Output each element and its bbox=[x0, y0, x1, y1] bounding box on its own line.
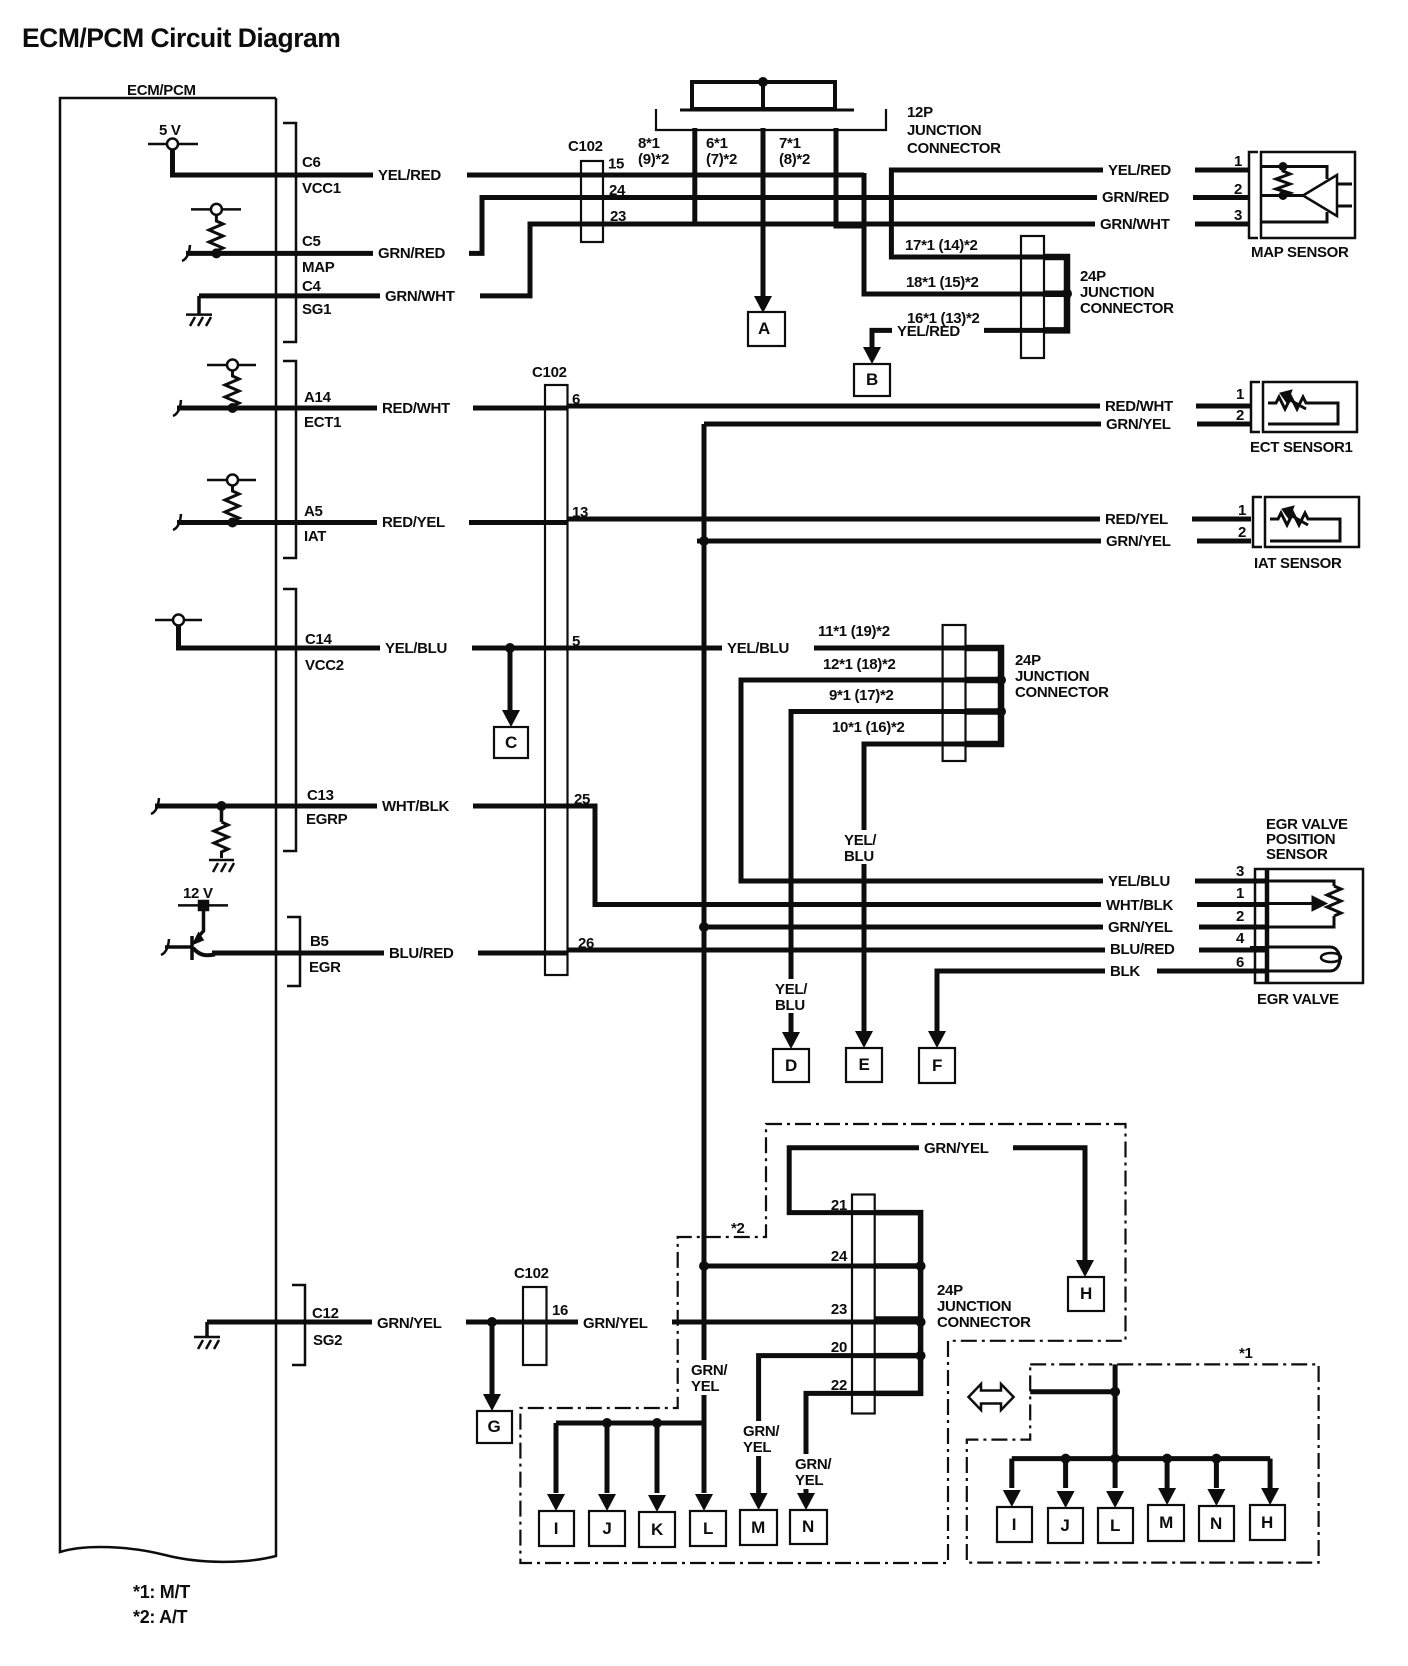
wire drop J row1 bbox=[605, 1423, 610, 1493]
svg-text:23: 23 bbox=[831, 1301, 847, 1318]
arrowhead M row2 bbox=[1158, 1488, 1176, 1505]
svg-text:G: G bbox=[488, 1417, 501, 1436]
wire label GRN/YEL C102-16 bbox=[578, 1313, 672, 1332]
arrowhead N row1 bbox=[797, 1493, 815, 1510]
svg-text:CONNECTOR: CONNECTOR bbox=[1015, 684, 1109, 701]
svg-text:11*1 (19)*2: 11*1 (19)*2 bbox=[818, 623, 890, 640]
wire EGR GRN/YEL pin2 bbox=[704, 925, 1268, 930]
svg-text:ECT SENSOR1: ECT SENSOR1 bbox=[1250, 439, 1353, 456]
wire 12P busbar flange bbox=[680, 109, 854, 112]
svg-text:C102: C102 bbox=[568, 138, 603, 155]
svg-text:MAP: MAP bbox=[302, 259, 335, 276]
svg-text:(7)*2: (7)*2 bbox=[706, 151, 737, 168]
junction bus1 K bbox=[652, 1418, 662, 1428]
arrowhead J row1 bbox=[598, 1494, 616, 1511]
ECT sensor connector bracket bbox=[1251, 382, 1260, 432]
box N row2 bbox=[1199, 1506, 1234, 1541]
wire drop H row2 bbox=[1268, 1459, 1273, 1488]
box L row2 bbox=[1098, 1508, 1133, 1543]
box M row1 bbox=[740, 1510, 777, 1545]
svg-text:*2: A/T: *2: A/T bbox=[133, 1607, 188, 1627]
svg-text:2: 2 bbox=[1238, 524, 1246, 541]
svg-text:25: 25 bbox=[574, 791, 590, 808]
box D bbox=[773, 1049, 809, 1082]
arrowhead J row2 bbox=[1057, 1491, 1075, 1508]
svg-text:(8)*2: (8)*2 bbox=[779, 151, 810, 168]
arrowhead A bbox=[754, 296, 772, 313]
12P junction connector busbar bbox=[692, 82, 835, 109]
svg-text:IAT SENSOR: IAT SENSOR bbox=[1254, 555, 1342, 572]
svg-text:23: 23 bbox=[610, 208, 626, 225]
svg-text:YEL: YEL bbox=[743, 1439, 771, 1456]
EGR position sensor pot bbox=[1268, 881, 1341, 927]
box J row1 bbox=[589, 1511, 625, 1546]
wire GRN/YEL long vertical bbox=[702, 424, 707, 1423]
bracket group5 C12 bbox=[292, 1285, 305, 1365]
wire 24P-22 to N bbox=[806, 1393, 921, 1493]
svg-text:RED/WHT: RED/WHT bbox=[1105, 398, 1173, 415]
wire label GRN/YEL ECT2 bbox=[1101, 414, 1197, 433]
svg-text:YEL/BLU: YEL/BLU bbox=[385, 640, 447, 657]
arrowhead L row1 bbox=[695, 1494, 713, 1511]
svg-text:ECT1: ECT1 bbox=[304, 414, 341, 431]
junction 24P top bus bbox=[1062, 289, 1072, 299]
junction MAP resistor top bbox=[1279, 162, 1288, 171]
wire label RED/YEL IAT1 bbox=[1100, 509, 1192, 528]
box I row1 bbox=[539, 1511, 574, 1546]
arrowhead F bbox=[928, 1031, 946, 1048]
wire 12P pin 8*1 to C102-23 bbox=[692, 128, 697, 224]
svg-text:16*1 (13)*2: 16*1 (13)*2 bbox=[907, 310, 980, 327]
wire 24P top bus bbox=[1044, 257, 1067, 330]
wire ground drop C4 bbox=[197, 296, 201, 314]
svg-text:VCC1: VCC1 bbox=[302, 180, 341, 197]
svg-text:12*1 (18)*2: 12*1 (18)*2 bbox=[823, 656, 896, 673]
wire YEL/RED MAP pin1 to 24P-17 bbox=[891, 170, 1249, 257]
wire 24P mid bus bbox=[966, 648, 1002, 744]
wire drop J row2 bbox=[1063, 1459, 1068, 1488]
svg-text:JUNCTION: JUNCTION bbox=[1080, 284, 1154, 301]
svg-text:SENSOR: SENSOR bbox=[1266, 846, 1328, 863]
MAP sensor box bbox=[1261, 152, 1355, 238]
24P junction connector mid housing bbox=[943, 625, 966, 761]
slash continuation C5 bbox=[182, 245, 190, 261]
box I row2 bbox=[997, 1507, 1032, 1542]
5V supply symbol VCC2 bbox=[155, 615, 202, 626]
EGR valve solenoid bbox=[1268, 947, 1341, 971]
svg-text:21: 21 bbox=[831, 1197, 847, 1214]
svg-text:8*1: 8*1 bbox=[638, 135, 660, 152]
junction IAT GRN/YEL bbox=[699, 536, 709, 546]
wire label GRN/RED MAP2 bbox=[1097, 188, 1193, 207]
junction bus2 L bbox=[1110, 1454, 1120, 1464]
wire 12P pin 7*1 jog bbox=[836, 128, 864, 226]
junction G drop bbox=[487, 1317, 497, 1327]
box M row2 bbox=[1148, 1505, 1184, 1541]
resistor pullup A14 bbox=[207, 360, 256, 409]
svg-text:I: I bbox=[1012, 1515, 1016, 1534]
wire label BLU/RED EGR4 bbox=[1105, 939, 1199, 958]
svg-text:CONNECTOR: CONNECTOR bbox=[907, 140, 1001, 157]
dashed box *1 bbox=[967, 1364, 1319, 1562]
EGR position sensor wiper arrow bbox=[1268, 896, 1327, 911]
svg-text:MAP SENSOR: MAP SENSOR bbox=[1251, 244, 1349, 261]
slash continuation A14 bbox=[173, 400, 181, 416]
svg-text:JUNCTION: JUNCTION bbox=[907, 122, 981, 139]
wire B5 EGR BLU/RED bbox=[212, 949, 1268, 954]
MAP sensor amplifier triangle bbox=[1303, 175, 1337, 216]
svg-text:1: 1 bbox=[1236, 885, 1244, 902]
ground C13 bbox=[209, 860, 234, 872]
svg-text:GRN/YEL: GRN/YEL bbox=[377, 1315, 442, 1332]
svg-text:24P: 24P bbox=[1080, 268, 1106, 285]
wire row2 top vertical bbox=[1113, 1364, 1118, 1458]
svg-text:BLU: BLU bbox=[844, 848, 874, 865]
slash continuation C13 bbox=[151, 798, 159, 814]
svg-text:13: 13 bbox=[572, 504, 588, 521]
junction 24P mid bus b bbox=[996, 707, 1006, 717]
svg-text:BLU/RED: BLU/RED bbox=[1110, 941, 1175, 958]
junction 24P mid bus a bbox=[996, 675, 1006, 685]
svg-text:YEL/BLU: YEL/BLU bbox=[1108, 873, 1170, 890]
svg-text:GRN/RED: GRN/RED bbox=[1102, 189, 1170, 206]
svg-text:20: 20 bbox=[831, 1339, 847, 1356]
svg-text:VCC2: VCC2 bbox=[305, 657, 344, 674]
wire 24P-20 to M bbox=[759, 1356, 921, 1493]
svg-text:BLU: BLU bbox=[775, 997, 805, 1014]
24P junction connector bottom housing bbox=[852, 1195, 875, 1414]
svg-text:J: J bbox=[1060, 1516, 1069, 1535]
svg-text:D: D bbox=[785, 1056, 797, 1075]
wire GRN/YEL to 24P-21 bbox=[789, 1148, 1008, 1213]
wire bottom bus row1 bbox=[556, 1421, 704, 1426]
wire label GRN/WHT MAP3 bbox=[1095, 214, 1195, 233]
svg-text:15: 15 bbox=[608, 156, 624, 173]
junction YEL/BLU C drop bbox=[505, 643, 515, 653]
wire drop N row2 bbox=[1214, 1459, 1219, 1488]
IAT sensor connector bracket bbox=[1253, 497, 1262, 547]
wire ground drop C12 bbox=[205, 1322, 209, 1337]
wire G drop bbox=[490, 1322, 495, 1403]
ECT sensor box bbox=[1263, 382, 1357, 432]
svg-text:YEL/RED: YEL/RED bbox=[378, 167, 441, 184]
label GRN/YEL stacked N bbox=[792, 1454, 835, 1489]
svg-text:GRN/YEL: GRN/YEL bbox=[924, 1140, 989, 1157]
ECM/PCM box bbox=[60, 98, 276, 1562]
svg-text:JUNCTION: JUNCTION bbox=[1015, 668, 1089, 685]
bracket group4 B5 bbox=[287, 917, 300, 986]
wire label YEL/RED MAP1 bbox=[1103, 160, 1195, 179]
svg-text:SG1: SG1 bbox=[302, 301, 331, 318]
svg-text:2: 2 bbox=[1234, 181, 1242, 198]
svg-text:B: B bbox=[866, 370, 878, 389]
wire C12 SG2 GRN/YEL bbox=[207, 1320, 921, 1325]
box J row2 bbox=[1048, 1508, 1083, 1543]
svg-text:EGRP: EGRP bbox=[306, 811, 348, 828]
svg-text:3: 3 bbox=[1236, 863, 1244, 880]
box H row2 bbox=[1250, 1505, 1285, 1540]
junction 24P bottom bus a bbox=[916, 1261, 926, 1271]
wire drop L row2 bbox=[1113, 1459, 1118, 1488]
svg-text:C102: C102 bbox=[532, 364, 567, 381]
svg-text:BLU/RED: BLU/RED bbox=[389, 945, 454, 962]
junction bus1 J bbox=[602, 1418, 612, 1428]
svg-text:L: L bbox=[703, 1519, 713, 1538]
wire A14 ECT1 RED/WHT bbox=[177, 406, 1251, 408]
label YEL/BLU stacked E bbox=[845, 830, 881, 864]
svg-text:22: 22 bbox=[831, 1377, 847, 1394]
svg-text:CONNECTOR: CONNECTOR bbox=[937, 1314, 1031, 1331]
svg-text:WHT/BLK: WHT/BLK bbox=[1106, 897, 1174, 914]
wire label GRN/YEL EGR2 bbox=[1103, 917, 1199, 936]
svg-text:IAT: IAT bbox=[304, 528, 326, 545]
box C bbox=[494, 727, 528, 758]
arrowhead L row2 bbox=[1106, 1491, 1124, 1508]
svg-text:ECM/PCM Circuit Diagram: ECM/PCM Circuit Diagram bbox=[22, 23, 340, 53]
wire label WHT/BLK EGR1 bbox=[1101, 895, 1197, 914]
arrowhead D bbox=[782, 1032, 800, 1049]
box B bbox=[854, 364, 890, 396]
wire C13 EGRP WHT/BLK bbox=[155, 806, 1268, 905]
box F bbox=[919, 1048, 955, 1083]
junction A5 resistor bbox=[228, 518, 238, 528]
12V supply symbol bbox=[178, 901, 228, 910]
svg-text:10*1 (16)*2: 10*1 (16)*2 bbox=[832, 719, 905, 736]
svg-text:12 V: 12 V bbox=[183, 885, 213, 902]
wire 12P pin 6*1 down to A bbox=[761, 128, 766, 301]
5V supply symbol bbox=[148, 139, 198, 150]
svg-text:RED/YEL: RED/YEL bbox=[1105, 511, 1168, 528]
svg-text:24: 24 bbox=[831, 1248, 848, 1265]
junction A14 resistor bbox=[228, 403, 238, 413]
svg-text:J: J bbox=[602, 1519, 611, 1538]
svg-text:ECM/PCM: ECM/PCM bbox=[127, 82, 196, 99]
junction EGR GRN/YEL bbox=[699, 922, 709, 932]
wire A5 IAT RED/YEL bbox=[177, 519, 1251, 523]
arrowhead I row1 bbox=[547, 1494, 565, 1511]
svg-text:SG2: SG2 bbox=[313, 1332, 342, 1349]
wire 24P-16 YEL/RED to B bbox=[872, 330, 1067, 358]
svg-text:M: M bbox=[1159, 1513, 1173, 1532]
junction C13 resistor bbox=[217, 801, 227, 811]
svg-text:JUNCTION: JUNCTION bbox=[937, 1298, 1011, 1315]
box N row1 bbox=[790, 1510, 827, 1544]
svg-text:*2: *2 bbox=[731, 1220, 745, 1237]
junction bus2 M bbox=[1162, 1454, 1172, 1464]
svg-text:C6: C6 bbox=[302, 154, 321, 171]
junction row2 stub bbox=[1110, 1387, 1120, 1397]
slash continuation A5 bbox=[173, 514, 181, 530]
wire label YEL/BLU 24P-11 bbox=[722, 638, 814, 657]
wire IAT GRN/YEL bbox=[697, 539, 1251, 544]
svg-text:A5: A5 bbox=[304, 503, 323, 520]
double arrow symbol bbox=[969, 1384, 1014, 1410]
dashed box *2 bbox=[520, 1124, 1125, 1563]
wire label RED/WHT A14 bbox=[377, 398, 473, 417]
24P junction connector top housing bbox=[1021, 236, 1044, 358]
MAP sensor internal wiring bbox=[1261, 167, 1352, 223]
arrowhead B bbox=[863, 347, 881, 364]
wire EGR BLK to F bbox=[937, 971, 1268, 1038]
svg-text:GRN/YEL: GRN/YEL bbox=[1106, 533, 1171, 550]
svg-text:GRN/: GRN/ bbox=[691, 1362, 728, 1379]
svg-text:GRN/YEL: GRN/YEL bbox=[1108, 919, 1173, 936]
resistor pullup A5 bbox=[207, 475, 256, 524]
wire 24P-9 to D bbox=[791, 712, 1001, 1039]
svg-text:YEL/: YEL/ bbox=[844, 832, 877, 849]
junction 24P bottom bus b bbox=[916, 1317, 926, 1327]
svg-text:9*1 (17)*2: 9*1 (17)*2 bbox=[829, 687, 894, 704]
junction 24-line bbox=[699, 1261, 709, 1271]
svg-text:GRN/: GRN/ bbox=[795, 1456, 832, 1473]
wire C4 SG1 GRN/WHT bbox=[199, 224, 1249, 296]
wire label GRN/RED C5 bbox=[373, 244, 469, 263]
wire 24P bottom bus bbox=[875, 1213, 921, 1394]
svg-text:H: H bbox=[1080, 1284, 1092, 1303]
ground SG1 bbox=[186, 315, 212, 326]
svg-text:2: 2 bbox=[1236, 908, 1244, 925]
wire label RED/WHT ECT1 bbox=[1100, 396, 1196, 415]
box E bbox=[846, 1048, 882, 1082]
svg-text:C12: C12 bbox=[312, 1305, 339, 1322]
junction MAP resistor bottom bbox=[1279, 191, 1288, 200]
svg-text:GRN/: GRN/ bbox=[743, 1423, 780, 1440]
svg-text:GRN/YEL: GRN/YEL bbox=[583, 1315, 648, 1332]
svg-text:CONNECTOR: CONNECTOR bbox=[1080, 300, 1174, 317]
arrowhead N row2 bbox=[1207, 1489, 1225, 1506]
wire bottom bus row2 bbox=[1012, 1456, 1270, 1461]
wire drop M row2 bbox=[1165, 1459, 1170, 1488]
arrowhead G bbox=[483, 1394, 501, 1411]
junction 12P busbar top bbox=[758, 77, 768, 87]
wire label GRN/YEL to H bbox=[919, 1138, 1013, 1157]
wire label GRN/WHT C4 bbox=[380, 286, 480, 305]
wire drop L row1 bbox=[702, 1423, 707, 1493]
transistor Q1 EGR driver bbox=[165, 905, 215, 960]
bracket group1 C6-SG1 bbox=[283, 123, 296, 342]
bracket group3 C14-EGRP bbox=[283, 589, 296, 851]
MAP sensor connector bracket bbox=[1249, 152, 1258, 238]
svg-text:RED/WHT: RED/WHT bbox=[382, 400, 450, 417]
svg-text:GRN/RED: GRN/RED bbox=[378, 245, 446, 262]
svg-text:5: 5 bbox=[572, 633, 580, 650]
wire net C102-15 to 24P-18 vertical bbox=[864, 173, 1067, 294]
svg-text:L: L bbox=[1110, 1516, 1120, 1535]
wire label WHT/BLK C13 bbox=[377, 796, 473, 815]
wire label YEL/RED C6 bbox=[373, 165, 467, 184]
svg-text:5 V: 5 V bbox=[159, 122, 181, 139]
svg-text:26: 26 bbox=[578, 935, 594, 952]
wire ECT GRN/YEL bbox=[704, 422, 1251, 427]
wire drop K row1 bbox=[655, 1423, 660, 1493]
svg-text:N: N bbox=[1210, 1514, 1222, 1533]
arrowhead M row1 bbox=[750, 1493, 768, 1510]
svg-text:B5: B5 bbox=[310, 933, 329, 950]
junction bus2 N bbox=[1211, 1454, 1221, 1464]
svg-text:H: H bbox=[1261, 1513, 1273, 1532]
arrowhead K row1 bbox=[648, 1495, 666, 1512]
svg-text:K: K bbox=[651, 1520, 664, 1539]
bracket group2 A14-IAT bbox=[283, 361, 296, 558]
EGR valve box bbox=[1268, 869, 1363, 983]
svg-text:1: 1 bbox=[1238, 502, 1246, 519]
svg-text:A: A bbox=[758, 319, 770, 338]
wire label YEL/RED 24P-16 bbox=[892, 321, 984, 340]
svg-text:C13: C13 bbox=[307, 787, 334, 804]
wire drop I row1 bbox=[554, 1423, 559, 1493]
svg-text:BLK: BLK bbox=[1110, 963, 1140, 980]
label GRN/YEL stacked L bbox=[688, 1360, 731, 1395]
wire label BLK EGR6 bbox=[1105, 961, 1157, 980]
svg-text:GRN/WHT: GRN/WHT bbox=[385, 288, 455, 305]
svg-text:E: E bbox=[858, 1055, 869, 1074]
arrowhead C bbox=[502, 710, 520, 727]
junction 24P bottom bus c bbox=[916, 1351, 926, 1361]
svg-text:YEL/RED: YEL/RED bbox=[1108, 162, 1171, 179]
label GRN/YEL stacked M bbox=[740, 1421, 783, 1456]
wire label YEL/BLU EGR3 bbox=[1103, 871, 1195, 890]
svg-text:1: 1 bbox=[1234, 153, 1242, 170]
EGR valve connector bracket bbox=[1255, 869, 1266, 983]
svg-text:(9)*2: (9)*2 bbox=[638, 151, 669, 168]
svg-text:YEL: YEL bbox=[795, 1472, 823, 1489]
C102 connector 2 bbox=[545, 385, 568, 975]
MAP sensor resistor bbox=[1276, 167, 1290, 197]
svg-text:6: 6 bbox=[572, 391, 580, 408]
slash continuation B5 base bbox=[161, 939, 169, 955]
svg-text:C5: C5 bbox=[302, 233, 321, 250]
box K row1 bbox=[639, 1512, 675, 1547]
svg-text:C102: C102 bbox=[514, 1265, 549, 1282]
box A bbox=[748, 312, 785, 346]
ground SG2 bbox=[194, 1337, 220, 1349]
arrowhead H upper bbox=[1076, 1260, 1094, 1277]
svg-text:N: N bbox=[802, 1517, 814, 1536]
svg-text:24P: 24P bbox=[1015, 652, 1041, 669]
wire C drop bbox=[508, 648, 513, 716]
svg-text:6*1: 6*1 bbox=[706, 135, 728, 152]
svg-text:M: M bbox=[751, 1518, 765, 1537]
svg-text:GRN/WHT: GRN/WHT bbox=[1100, 216, 1170, 233]
resistor pulldown C13 bbox=[214, 822, 228, 858]
wire 24P-10 to E bbox=[864, 744, 1001, 1038]
wire label GRN/YEL C12 bbox=[372, 1313, 466, 1332]
svg-text:A14: A14 bbox=[304, 389, 332, 406]
junction C5 resistor bbox=[211, 248, 221, 258]
12P junction connector housing bbox=[656, 109, 886, 130]
svg-text:12P: 12P bbox=[907, 104, 933, 121]
wire row2 stub bbox=[1030, 1389, 1115, 1394]
IAT sensor box bbox=[1265, 497, 1359, 547]
arrowhead H row2 bbox=[1261, 1488, 1279, 1505]
svg-text:6: 6 bbox=[1236, 954, 1244, 971]
C102 connector 1 bbox=[581, 161, 603, 242]
label YEL/BLU stacked D bbox=[772, 979, 812, 1013]
wire GRN/YEL to H bbox=[1008, 1148, 1085, 1269]
resistor pullup C5 bbox=[191, 204, 241, 253]
svg-text:*1: M/T: *1: M/T bbox=[133, 1582, 190, 1602]
svg-text:C4: C4 bbox=[302, 278, 322, 295]
ECT sensor thermistor bbox=[1268, 390, 1338, 424]
svg-text:3: 3 bbox=[1234, 207, 1242, 224]
svg-text:YEL/BLU: YEL/BLU bbox=[727, 640, 789, 657]
svg-text:1: 1 bbox=[1236, 386, 1244, 403]
arrowhead E bbox=[855, 1031, 873, 1048]
C102 connector 3 bbox=[523, 1287, 547, 1365]
wire C5 MAP GRN/RED bbox=[186, 198, 1249, 254]
svg-text:RED/YEL: RED/YEL bbox=[382, 514, 445, 531]
junction bus2 J bbox=[1061, 1454, 1071, 1464]
